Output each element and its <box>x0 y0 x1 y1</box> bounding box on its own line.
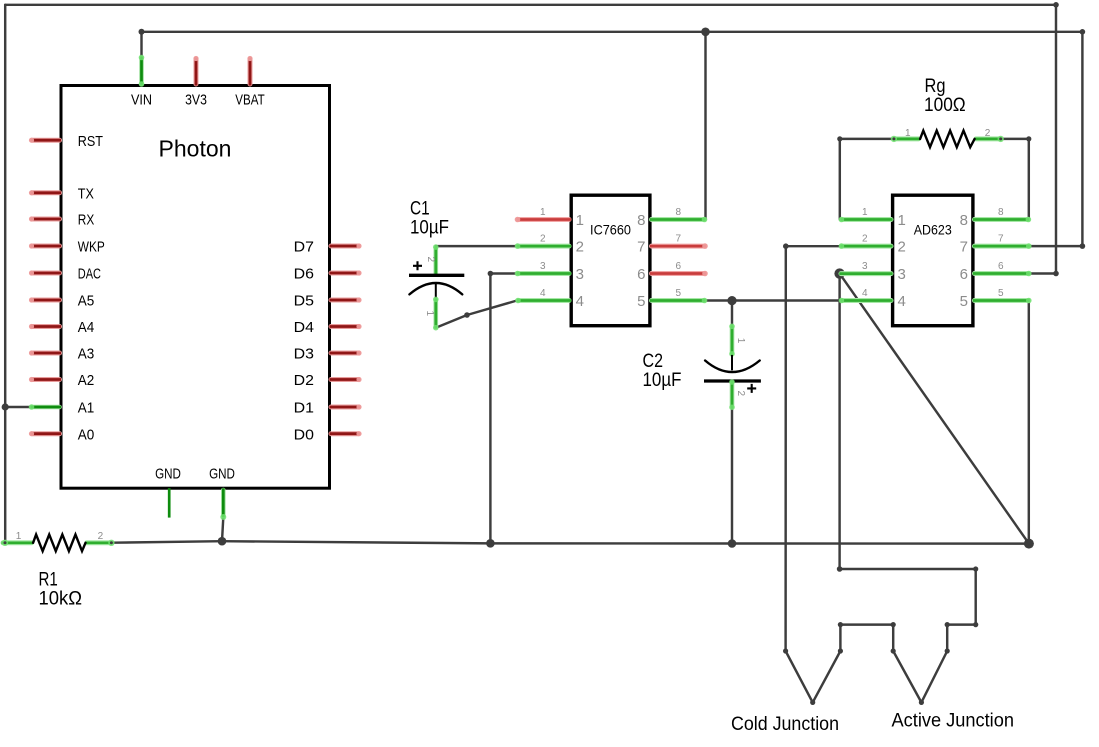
pin D4 <box>294 319 362 336</box>
resistor R1 <box>2 531 115 551</box>
AD623 pin 8 <box>960 207 1032 229</box>
node junction A1/left frame <box>2 403 9 410</box>
svg-text:4: 4 <box>576 293 584 310</box>
wire Rg pin2 to AD623 pin8 <box>1002 136 1032 219</box>
node junction AD623 pin3 <box>834 268 844 278</box>
svg-text:5: 5 <box>998 288 1004 299</box>
svg-text:D3: D3 <box>294 346 314 363</box>
svg-text:GND: GND <box>209 466 235 483</box>
wire C1 pin1 to IC7660 pin4 <box>436 301 518 328</box>
wire C2 pin1 stem <box>731 301 733 326</box>
svg-text:2: 2 <box>735 391 746 397</box>
svg-text:5: 5 <box>637 293 645 310</box>
wire VIN to AD623 pin7 <box>139 29 1086 249</box>
capacitor C1 <box>409 244 464 330</box>
svg-text:D0: D0 <box>294 426 314 443</box>
svg-text:AD623: AD623 <box>914 221 952 237</box>
svg-text:2: 2 <box>985 128 991 139</box>
label Rg value <box>924 76 966 116</box>
label C2 value <box>643 351 682 391</box>
svg-text:6: 6 <box>637 266 645 283</box>
pin D5 <box>294 293 362 310</box>
svg-text:Photon: Photon <box>159 136 232 162</box>
svg-text:2: 2 <box>898 238 906 255</box>
pin A2 <box>29 372 94 389</box>
AD623 pin 6 <box>960 261 1032 283</box>
svg-text:C2: C2 <box>643 351 664 372</box>
svg-text:C1: C1 <box>410 198 430 219</box>
svg-text:TX: TX <box>78 186 94 203</box>
svg-text:2: 2 <box>540 234 546 245</box>
svg-text:1: 1 <box>16 531 22 542</box>
node junction pin3-drop bus <box>486 539 495 548</box>
pin D3 <box>294 346 362 363</box>
svg-text:A1: A1 <box>78 400 95 417</box>
svg-text:8: 8 <box>960 212 968 229</box>
AD623 pin 1 <box>839 207 906 229</box>
resistor Rg <box>891 128 1004 147</box>
svg-text:100Ω: 100Ω <box>924 95 966 116</box>
wire top frame net (VIN to AD623 pin6) <box>5 2 1059 276</box>
wire ground bus (R1 pin2 to AD623 pin5 drop) <box>112 541 1029 543</box>
svg-text:5: 5 <box>676 288 682 299</box>
svg-text:4: 4 <box>540 288 546 299</box>
svg-text:8: 8 <box>998 207 1004 218</box>
pin A5 <box>29 293 94 310</box>
svg-text:Active Junction: Active Junction <box>892 711 1015 732</box>
IC7660 pin 5 <box>637 288 707 310</box>
svg-text:4: 4 <box>898 293 906 310</box>
svg-text:10kΩ: 10kΩ <box>39 589 83 610</box>
svg-text:Cold Junction: Cold Junction <box>731 714 839 735</box>
wire GND2 to bus <box>222 517 223 541</box>
IC7660 pin 7 (NC, red) <box>637 234 708 256</box>
pin A1 (connected) <box>29 400 95 417</box>
node junction right bus <box>1024 539 1034 549</box>
AD623 pin 5 <box>960 288 1032 310</box>
svg-text:A2: A2 <box>78 372 95 389</box>
svg-text:R1: R1 <box>39 570 58 591</box>
wire Rg pin1 to AD623 pin1 <box>837 136 893 219</box>
svg-text:1: 1 <box>735 338 746 344</box>
pin GND (left) <box>155 466 181 518</box>
svg-text:5: 5 <box>960 293 968 310</box>
svg-text:6: 6 <box>676 261 682 272</box>
node junction IC7660 pin8/VIN net <box>701 28 710 37</box>
wire AD623 pin5 drop to bus <box>1028 301 1030 544</box>
svg-text:1: 1 <box>905 128 911 139</box>
IC7660 pin 4 <box>515 288 584 310</box>
pin VIN <box>131 55 152 109</box>
label C1 value <box>410 198 449 238</box>
Photon U1 body <box>61 86 330 489</box>
node junction GND bus <box>218 537 227 546</box>
svg-text:1: 1 <box>540 207 546 218</box>
svg-text:IC7660: IC7660 <box>590 221 631 237</box>
svg-text:6: 6 <box>998 261 1004 272</box>
AD623 pin 3 <box>839 261 906 283</box>
pin D2 <box>294 372 362 389</box>
wire AD623 pin3 diagonal to bus junction <box>840 274 1029 544</box>
svg-text:3: 3 <box>576 266 584 283</box>
svg-text:VIN: VIN <box>131 92 152 109</box>
svg-text:D1: D1 <box>294 400 314 417</box>
svg-text:10µF: 10µF <box>643 370 682 391</box>
svg-text:2: 2 <box>576 238 584 255</box>
pin 3V3 <box>185 56 207 109</box>
IC7660 pin 6 (NC, red) <box>637 261 708 283</box>
wire C1 pin2 to IC7660 pin2 <box>436 245 517 247</box>
svg-text:1: 1 <box>862 207 868 218</box>
op-amp U3 AD623 body <box>893 195 973 326</box>
label R1 value <box>39 570 83 610</box>
pin WKP <box>29 239 105 256</box>
pin RST <box>29 133 103 150</box>
svg-text:1: 1 <box>898 212 906 229</box>
svg-text:2: 2 <box>862 234 868 245</box>
svg-text:WKP: WKP <box>78 239 105 256</box>
svg-text:7: 7 <box>676 234 682 245</box>
op-amp U2 IC7660 body <box>571 195 650 326</box>
pin D7 <box>294 239 362 256</box>
wire C2 pin2 to bus <box>731 408 733 543</box>
pin D6 <box>294 266 362 283</box>
svg-text:8: 8 <box>637 212 645 229</box>
IC7660 pin 2 <box>515 234 584 256</box>
svg-text:7: 7 <box>960 238 968 255</box>
capacitor C2 <box>704 324 761 411</box>
svg-text:7: 7 <box>998 234 1004 245</box>
pin A0 <box>29 426 94 443</box>
IC7660 pin 1 (NC, red) <box>515 207 584 229</box>
svg-text:6: 6 <box>960 266 968 283</box>
pin A3 <box>29 346 94 363</box>
wire left frame (top-left down to R1 pin1) <box>4 5 6 543</box>
svg-text:2: 2 <box>425 257 436 263</box>
svg-text:2: 2 <box>98 531 104 542</box>
IC7660 pin 3 <box>515 261 584 283</box>
wire A1 to left frame <box>5 406 31 408</box>
svg-text:A3: A3 <box>78 346 95 363</box>
svg-text:3: 3 <box>898 266 906 283</box>
wire AD623 pin2 to thermocouple loop to AD623 pin3 <box>783 243 978 705</box>
IC7660 pin 8 <box>637 207 707 229</box>
svg-text:3: 3 <box>862 261 868 272</box>
pin A4 <box>29 319 94 336</box>
pin GND (right, connected) <box>209 466 235 520</box>
svg-text:4: 4 <box>862 288 868 299</box>
svg-text:A5: A5 <box>78 293 95 310</box>
AD623 pin 4 <box>839 288 906 310</box>
node junction C2/pin5 wire <box>727 296 736 305</box>
svg-text:7: 7 <box>637 238 645 255</box>
svg-text:D2: D2 <box>294 372 314 389</box>
pin RX <box>29 212 94 229</box>
wire IC7660 pin5 to AD623 pin4 <box>706 299 841 301</box>
pin TX <box>29 186 94 203</box>
svg-text:1: 1 <box>424 311 435 317</box>
svg-text:GND: GND <box>155 466 181 483</box>
svg-text:3V3: 3V3 <box>185 92 207 109</box>
svg-text:VBAT: VBAT <box>235 92 264 109</box>
AD623 pin 2 <box>839 234 906 256</box>
svg-text:DAC: DAC <box>78 266 101 283</box>
svg-text:D7: D7 <box>294 239 314 256</box>
svg-text:D5: D5 <box>294 293 314 310</box>
svg-text:A0: A0 <box>78 426 95 443</box>
wire IC7660 pin8 riser to VIN net <box>704 32 706 220</box>
AD623 pin 7 <box>960 234 1032 256</box>
svg-text:A4: A4 <box>78 319 95 336</box>
svg-text:RST: RST <box>78 133 103 150</box>
svg-text:1: 1 <box>576 212 584 229</box>
svg-text:3: 3 <box>540 261 546 272</box>
pin D0 <box>294 426 362 443</box>
svg-text:D4: D4 <box>294 319 314 336</box>
svg-text:RX: RX <box>78 212 95 229</box>
node junction C2 bus <box>728 539 737 548</box>
wire IC7660 pin3 to bus <box>488 271 517 544</box>
svg-text:D6: D6 <box>294 266 314 283</box>
pin VBAT <box>235 56 264 109</box>
pin D1 <box>294 400 362 417</box>
svg-text:8: 8 <box>676 207 682 218</box>
pin DAC <box>29 266 101 283</box>
svg-text:10µF: 10µF <box>410 217 449 238</box>
